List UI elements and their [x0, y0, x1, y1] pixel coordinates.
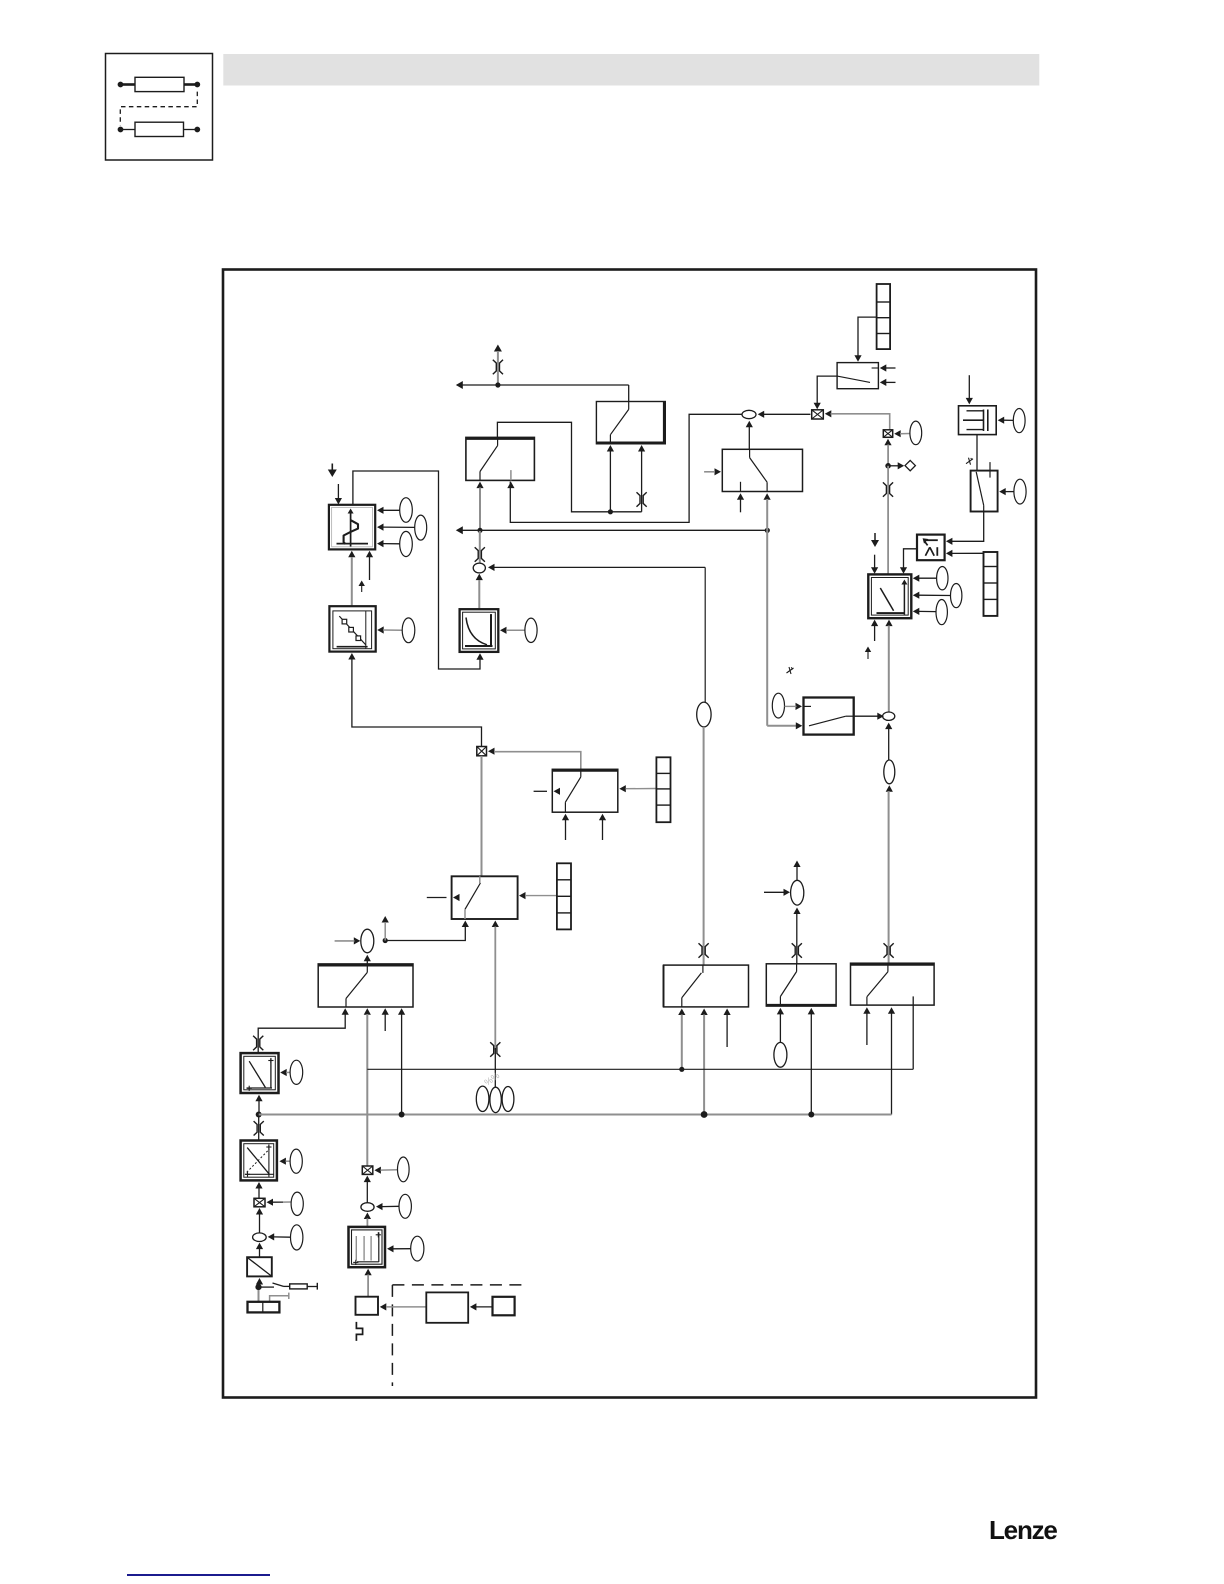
parameter ellipse [398, 1157, 410, 1182]
arrow into input box right [380, 1303, 427, 1310]
arrow into B5 bottom [255, 1182, 262, 1189]
wire S2 right loop [510, 414, 741, 522]
wire LG output to B8 [904, 549, 918, 568]
switch B [766, 964, 836, 1006]
arrow into B8 right 2 [913, 592, 951, 599]
arrow into S3 right [619, 785, 656, 792]
function block B4 (invert characteristic) [241, 1053, 279, 1093]
arrow into B8 bottom (through net) [885, 620, 892, 627]
wire S6 input2 down to M2 [366, 1014, 368, 1166]
click mark [787, 667, 794, 674]
function block B1 (s-ramp shaper) [329, 505, 375, 550]
arrow into M5 right [894, 430, 910, 437]
node junction [608, 509, 613, 514]
switch S8 [804, 698, 854, 735]
wire M2 from O5 [366, 1182, 368, 1203]
node junction [399, 1112, 405, 1118]
summing oval O6 [883, 712, 895, 720]
function block B3 (stepped characteristic) [329, 606, 375, 651]
multiplier point M2 [362, 1166, 373, 1174]
switch S1 [596, 402, 665, 444]
wire B4 from bus node [258, 1101, 260, 1115]
parameter ellipse [290, 1149, 302, 1173]
multiplier point M3 [254, 1198, 265, 1207]
parameter ellipse [402, 618, 415, 643]
arrow into S9 right [999, 488, 1014, 495]
parameter stack (4 codes) [984, 552, 998, 616]
arrow into MB right [998, 417, 1014, 424]
arrow into S2 bottom-left [476, 482, 483, 489]
wire S8 output [854, 715, 879, 717]
arrow into A bottom 3 [724, 1009, 731, 1048]
digital input box [356, 1297, 379, 1315]
arrow into B8 right 3 [913, 608, 936, 615]
wire S5 right input drop [494, 927, 496, 1051]
arrow into O5 right [376, 1203, 399, 1210]
multiplier point M5 [883, 430, 892, 438]
percent mark [482, 1070, 501, 1087]
wire separation glyph [699, 943, 709, 957]
arrow into O3 bottom [364, 955, 371, 962]
node junction [477, 528, 482, 533]
wire M4 to O2 [764, 413, 811, 415]
arrow into M3 right [267, 1199, 291, 1206]
function block MB (setpoint memory) [959, 406, 997, 435]
horizontal bus 2 (gray) [259, 1114, 892, 1116]
diamond connector [905, 460, 915, 470]
arrow to diamond [891, 462, 905, 469]
switch S10 [837, 363, 878, 389]
summing ellipse O7 [791, 880, 804, 905]
wire O3 from S6 [366, 961, 368, 964]
terminal bracket wire [270, 1293, 289, 1302]
switch S2 [466, 437, 535, 480]
arrow into S10 right 1 [880, 364, 896, 371]
free up-arrow above separation point [494, 345, 502, 385]
wire bus down to S8 [766, 530, 768, 725]
arrow into O1 bottom [476, 574, 483, 581]
summing oval O4 [253, 1233, 267, 1242]
wire into B5 top [258, 1115, 260, 1141]
free bold down-arrow [871, 533, 879, 547]
potentiometer resistor body [290, 1284, 308, 1289]
wire to parameter [383, 526, 415, 528]
arrow into M5 bottom [884, 439, 891, 446]
arrow into B8 bottom-left [871, 620, 878, 641]
wire C input3 from bus1 [912, 996, 914, 1069]
arrow into M4 top [814, 403, 821, 410]
wire stub [369, 557, 371, 580]
wire O6 to ellipse [888, 729, 890, 760]
wire to parameter [383, 509, 400, 511]
potentiometer lead [307, 1286, 317, 1288]
switch A [664, 965, 749, 1007]
parameter stack (4 codes) [656, 757, 670, 822]
parameter ellipse [290, 1060, 303, 1084]
arrow into PLC box right [470, 1303, 493, 1310]
wire C input2 from bus2 [891, 1013, 893, 1115]
wire O5 from B7 [366, 1218, 368, 1227]
parameter ellipse [411, 1236, 424, 1261]
terminal block X3 [248, 1302, 280, 1313]
arrow into A bottom 1 [678, 1009, 685, 1016]
switch S3 [552, 769, 618, 812]
arrow into S3 left [534, 788, 560, 795]
arrow into S7 bottom-left [737, 493, 744, 512]
parameter ellipse [1014, 479, 1026, 504]
free down-arrow into MB [966, 375, 973, 404]
arrow into O4 bottom [256, 1243, 263, 1250]
node junction [679, 1067, 684, 1072]
summing oval O2 [742, 410, 756, 418]
dashed option boundary horizontal [392, 1284, 525, 1286]
wire loop from JOG switch [497, 422, 641, 512]
wire M3 from O4 [259, 1214, 261, 1233]
node junction [383, 938, 388, 943]
wire S8 feed corner [767, 725, 797, 727]
arrow into B1 right 1 [377, 507, 384, 514]
arrow into S8 bottom-left [796, 722, 803, 729]
legend dashed wire [120, 92, 197, 126]
arrow into S7 bottom-right [764, 493, 771, 500]
arrow into B8 top-left [871, 555, 878, 574]
parameter ellipse [415, 515, 427, 540]
step signal glyph [356, 1322, 362, 1341]
motor-pot ellipse mid [490, 1087, 501, 1112]
wire S2 left chain [479, 488, 481, 531]
wire O7 to switch B [796, 914, 798, 964]
arrow into summer O3 left [335, 937, 361, 944]
function block B6 (normalize) [247, 1257, 272, 1276]
wire lower horizontal bus [457, 529, 767, 531]
wire A input2 to bus2 [703, 1015, 705, 1115]
wire from corner into O1 [494, 566, 705, 568]
function block B2 (1/x) [460, 609, 499, 652]
legend dashed-wire block symbol [118, 122, 201, 136]
wire O4 from B6 [259, 1249, 261, 1258]
wire node down [887, 466, 889, 575]
svg-text:%%: %% [482, 1070, 501, 1087]
wire S6 input1 from inverter B4 [258, 1014, 345, 1053]
arrow into B4 right [280, 1069, 290, 1076]
switch C [851, 963, 935, 1005]
summing ellipse O3 [361, 929, 374, 953]
arrow into M3 bottom [256, 1208, 263, 1215]
signal ellipse on net [697, 702, 711, 727]
node junction [255, 1284, 261, 1290]
arrow into LG right 1 [946, 538, 953, 545]
arrow into B3 bottom [348, 653, 355, 660]
wire separation glyph [254, 1121, 264, 1135]
wire separation glyph [792, 943, 802, 957]
wire corner into M4 [831, 414, 890, 430]
arrow into S6 bottom 1 [342, 1008, 349, 1015]
left exit arrow on lower bus [456, 526, 463, 534]
parameter ellipse [291, 1225, 303, 1250]
wire separation glyph [883, 482, 893, 496]
arrow into B5 right [279, 1158, 290, 1165]
arrow into M2 right [374, 1167, 397, 1174]
arrow into B bottom 2 [808, 1008, 815, 1015]
motor-pot ellipse left [476, 1086, 489, 1111]
wire M5 from node [887, 445, 889, 466]
wire from switch S3 top [494, 752, 581, 770]
arrow into B8 right 1 [913, 575, 937, 582]
wire S10 to M4 [817, 376, 837, 403]
arrow into S3 bottom-right [599, 814, 606, 840]
arrow into S5 bottom-right [492, 921, 499, 928]
wire stack to S10 [858, 317, 877, 356]
wire B7 from input box [367, 1275, 369, 1297]
diagram border frame [223, 270, 1036, 1398]
node junction [808, 1112, 814, 1118]
arrow into O1 right [488, 564, 495, 571]
fieldbus module box [493, 1297, 515, 1316]
wire separation glyph [490, 1042, 500, 1056]
arrow into O2 right [758, 411, 765, 418]
arrow into M1 right [488, 748, 495, 755]
arrow into S3 bottom-left [562, 814, 569, 840]
arrow into C bottom 2 [888, 1007, 895, 1014]
function block B8 (ramp generator) [868, 574, 911, 618]
function block B5 (X characteristic) [241, 1141, 277, 1181]
switch S9 [971, 462, 998, 511]
parameter ellipse [525, 618, 537, 642]
wire into motor-pot ellipses [494, 1048, 496, 1087]
arrow into S5 left [427, 894, 460, 901]
node junction [495, 382, 500, 387]
summing oval O1 [473, 563, 485, 573]
arrow into B1 right 2 [377, 524, 384, 531]
arrow into ellipse bottom [886, 785, 893, 792]
logic block LG [917, 535, 945, 561]
wire S1 right input drop [641, 452, 643, 512]
horizontal bus 1 [367, 1068, 913, 1070]
parameter ellipse [399, 1194, 411, 1218]
wire B input2 to bus2 [810, 1014, 812, 1115]
signal ellipse on net [884, 760, 895, 784]
free up-arrow [359, 581, 365, 593]
dashed option boundary vertical [391, 1285, 393, 1386]
legend box frame [106, 54, 213, 161]
footer blue rule [127, 1574, 270, 1576]
wire B5 from M3 [258, 1188, 260, 1198]
wire horizontal bus to switch S1 [457, 384, 629, 386]
parameter stack (4 codes) [877, 284, 891, 349]
arrow into B1 bottom-left [348, 551, 355, 558]
arrow into B6 bottom [256, 1278, 263, 1285]
parameter ellipse [772, 693, 784, 718]
arrow into O4 right [268, 1233, 291, 1240]
arrow into A bottom 2 [701, 1009, 708, 1016]
node junction [701, 1111, 708, 1118]
node junction [765, 528, 770, 533]
arrow into B7 right [387, 1245, 411, 1252]
parameter ellipse [936, 600, 947, 625]
wire gray stub to node [497, 377, 499, 385]
free up-arrow from node [382, 916, 389, 941]
free bold down-arrow [328, 464, 337, 478]
wire net down to switch A [703, 727, 705, 965]
wire O1 feed from lower blocks [704, 567, 706, 702]
arrow into S5 right [519, 892, 557, 899]
free up-arrow above O7 [793, 861, 800, 881]
parameter ellipse [400, 531, 413, 556]
multiplier point M1 [477, 747, 487, 756]
wire from parameter [506, 629, 525, 631]
arrow into O7 bottom [793, 908, 800, 915]
arrow into S8 left-top [785, 703, 803, 710]
arrow into S1 bottom-left [607, 445, 614, 452]
potentiometer wiper wire [261, 1286, 274, 1288]
free arrow into S7 left [704, 468, 721, 475]
wire drop into S1 [628, 385, 630, 402]
arrow into B1 top [335, 484, 342, 505]
arrow into C bottom 1 [863, 1007, 870, 1045]
wire separation glyph [475, 547, 485, 561]
arrow into S5 bottom-left [462, 921, 469, 928]
wire S7 right input from bus [766, 499, 768, 530]
arrow into B2 right [500, 627, 507, 634]
parameter ellipse [291, 1192, 303, 1215]
left exit arrow on bus [456, 381, 463, 389]
arrow into B7 bottom [365, 1269, 372, 1276]
summing oval O5 [361, 1203, 374, 1212]
arrow into B3 right [377, 626, 384, 633]
arrow into S6 bottom 2 [364, 1008, 371, 1015]
parameter ellipse [910, 421, 922, 445]
arrow into S6 bottom 3 [382, 1008, 389, 1031]
parameter ellipse [400, 498, 413, 523]
wire from multiplier M1 [352, 659, 482, 747]
arrow into O6 left [877, 713, 884, 720]
PLC interface box [426, 1292, 468, 1322]
switch S6 [318, 964, 413, 1007]
arrow into S6 bottom 4 [398, 1008, 405, 1015]
wire ramp to O6 [888, 626, 890, 712]
parameter ellipse [1013, 409, 1025, 433]
arrow into O2 bottom [746, 421, 753, 428]
wire S5 to node [385, 927, 465, 941]
arrow into M2 bottom [364, 1176, 371, 1183]
parameter stack (4 codes) [557, 863, 571, 929]
wire net down to switch C [888, 791, 890, 963]
Lenze logo [989, 1515, 1057, 1546]
arrow into S2 bottom-right [507, 482, 514, 489]
wire M1 down to switch S5 [481, 756, 483, 877]
switch S5 [452, 876, 518, 919]
arrow into B4 bottom [255, 1095, 262, 1102]
wire to parameter [383, 543, 400, 545]
wire separation glyph [493, 360, 503, 374]
wire S1 left input drop [609, 452, 611, 512]
wire node to terminal [258, 1290, 260, 1302]
wire separation glyph [637, 492, 647, 506]
wire S6 input4 down to bus [401, 1014, 403, 1115]
parameter ellipse [937, 567, 948, 590]
arrow into B bottom 1 [777, 1008, 784, 1015]
wire separation glyph [253, 1036, 263, 1050]
arrow into B2 bottom [476, 653, 483, 660]
node junction [885, 463, 891, 469]
arrow into M4 right [825, 410, 832, 417]
wire feedback loop to sine shaper [353, 471, 480, 669]
wire MB to S9 [976, 435, 978, 472]
arrow into B8 top-right [900, 567, 907, 574]
arrow into O6 bottom [885, 723, 892, 730]
wire to parameter [383, 629, 402, 631]
multiplier point M4 [812, 410, 824, 419]
wire from stepped block [351, 557, 353, 606]
wire B input1 to ellipse [779, 1014, 781, 1043]
wire S9 output to gate [949, 512, 984, 542]
wire to summer O1 [479, 530, 481, 563]
gray header bar [223, 54, 1039, 86]
arrow into O7 left [764, 889, 790, 896]
function block B7 (frequency input) [349, 1227, 386, 1267]
arrow into O5 bottom [364, 1213, 371, 1220]
legend solid-wire block symbol [118, 77, 201, 91]
free up-arrow [865, 647, 871, 660]
wire A input1 to bus1 [681, 1015, 683, 1070]
click mark [966, 458, 973, 465]
signal ellipse below B [774, 1042, 787, 1067]
wire separation glyph [884, 943, 894, 957]
terminal tick [316, 1283, 318, 1290]
arrow into S10 top [854, 355, 861, 362]
motor-pot ellipse right [502, 1087, 514, 1112]
arrow into S10 right 2 [880, 379, 896, 386]
node junction [256, 1112, 262, 1118]
arrow into LG right 2 [946, 550, 984, 557]
parameter ellipse [951, 584, 962, 608]
wire O1 to reciprocal block [478, 580, 480, 609]
arrow into S1 bottom-right [638, 445, 645, 452]
switch S7 [722, 449, 802, 491]
arrow into B1 right 3 [377, 540, 384, 547]
arrow into B1 bottom-right [366, 551, 373, 558]
wire O2 from S7 top [748, 424, 750, 449]
potentiometer lever [273, 1283, 290, 1286]
